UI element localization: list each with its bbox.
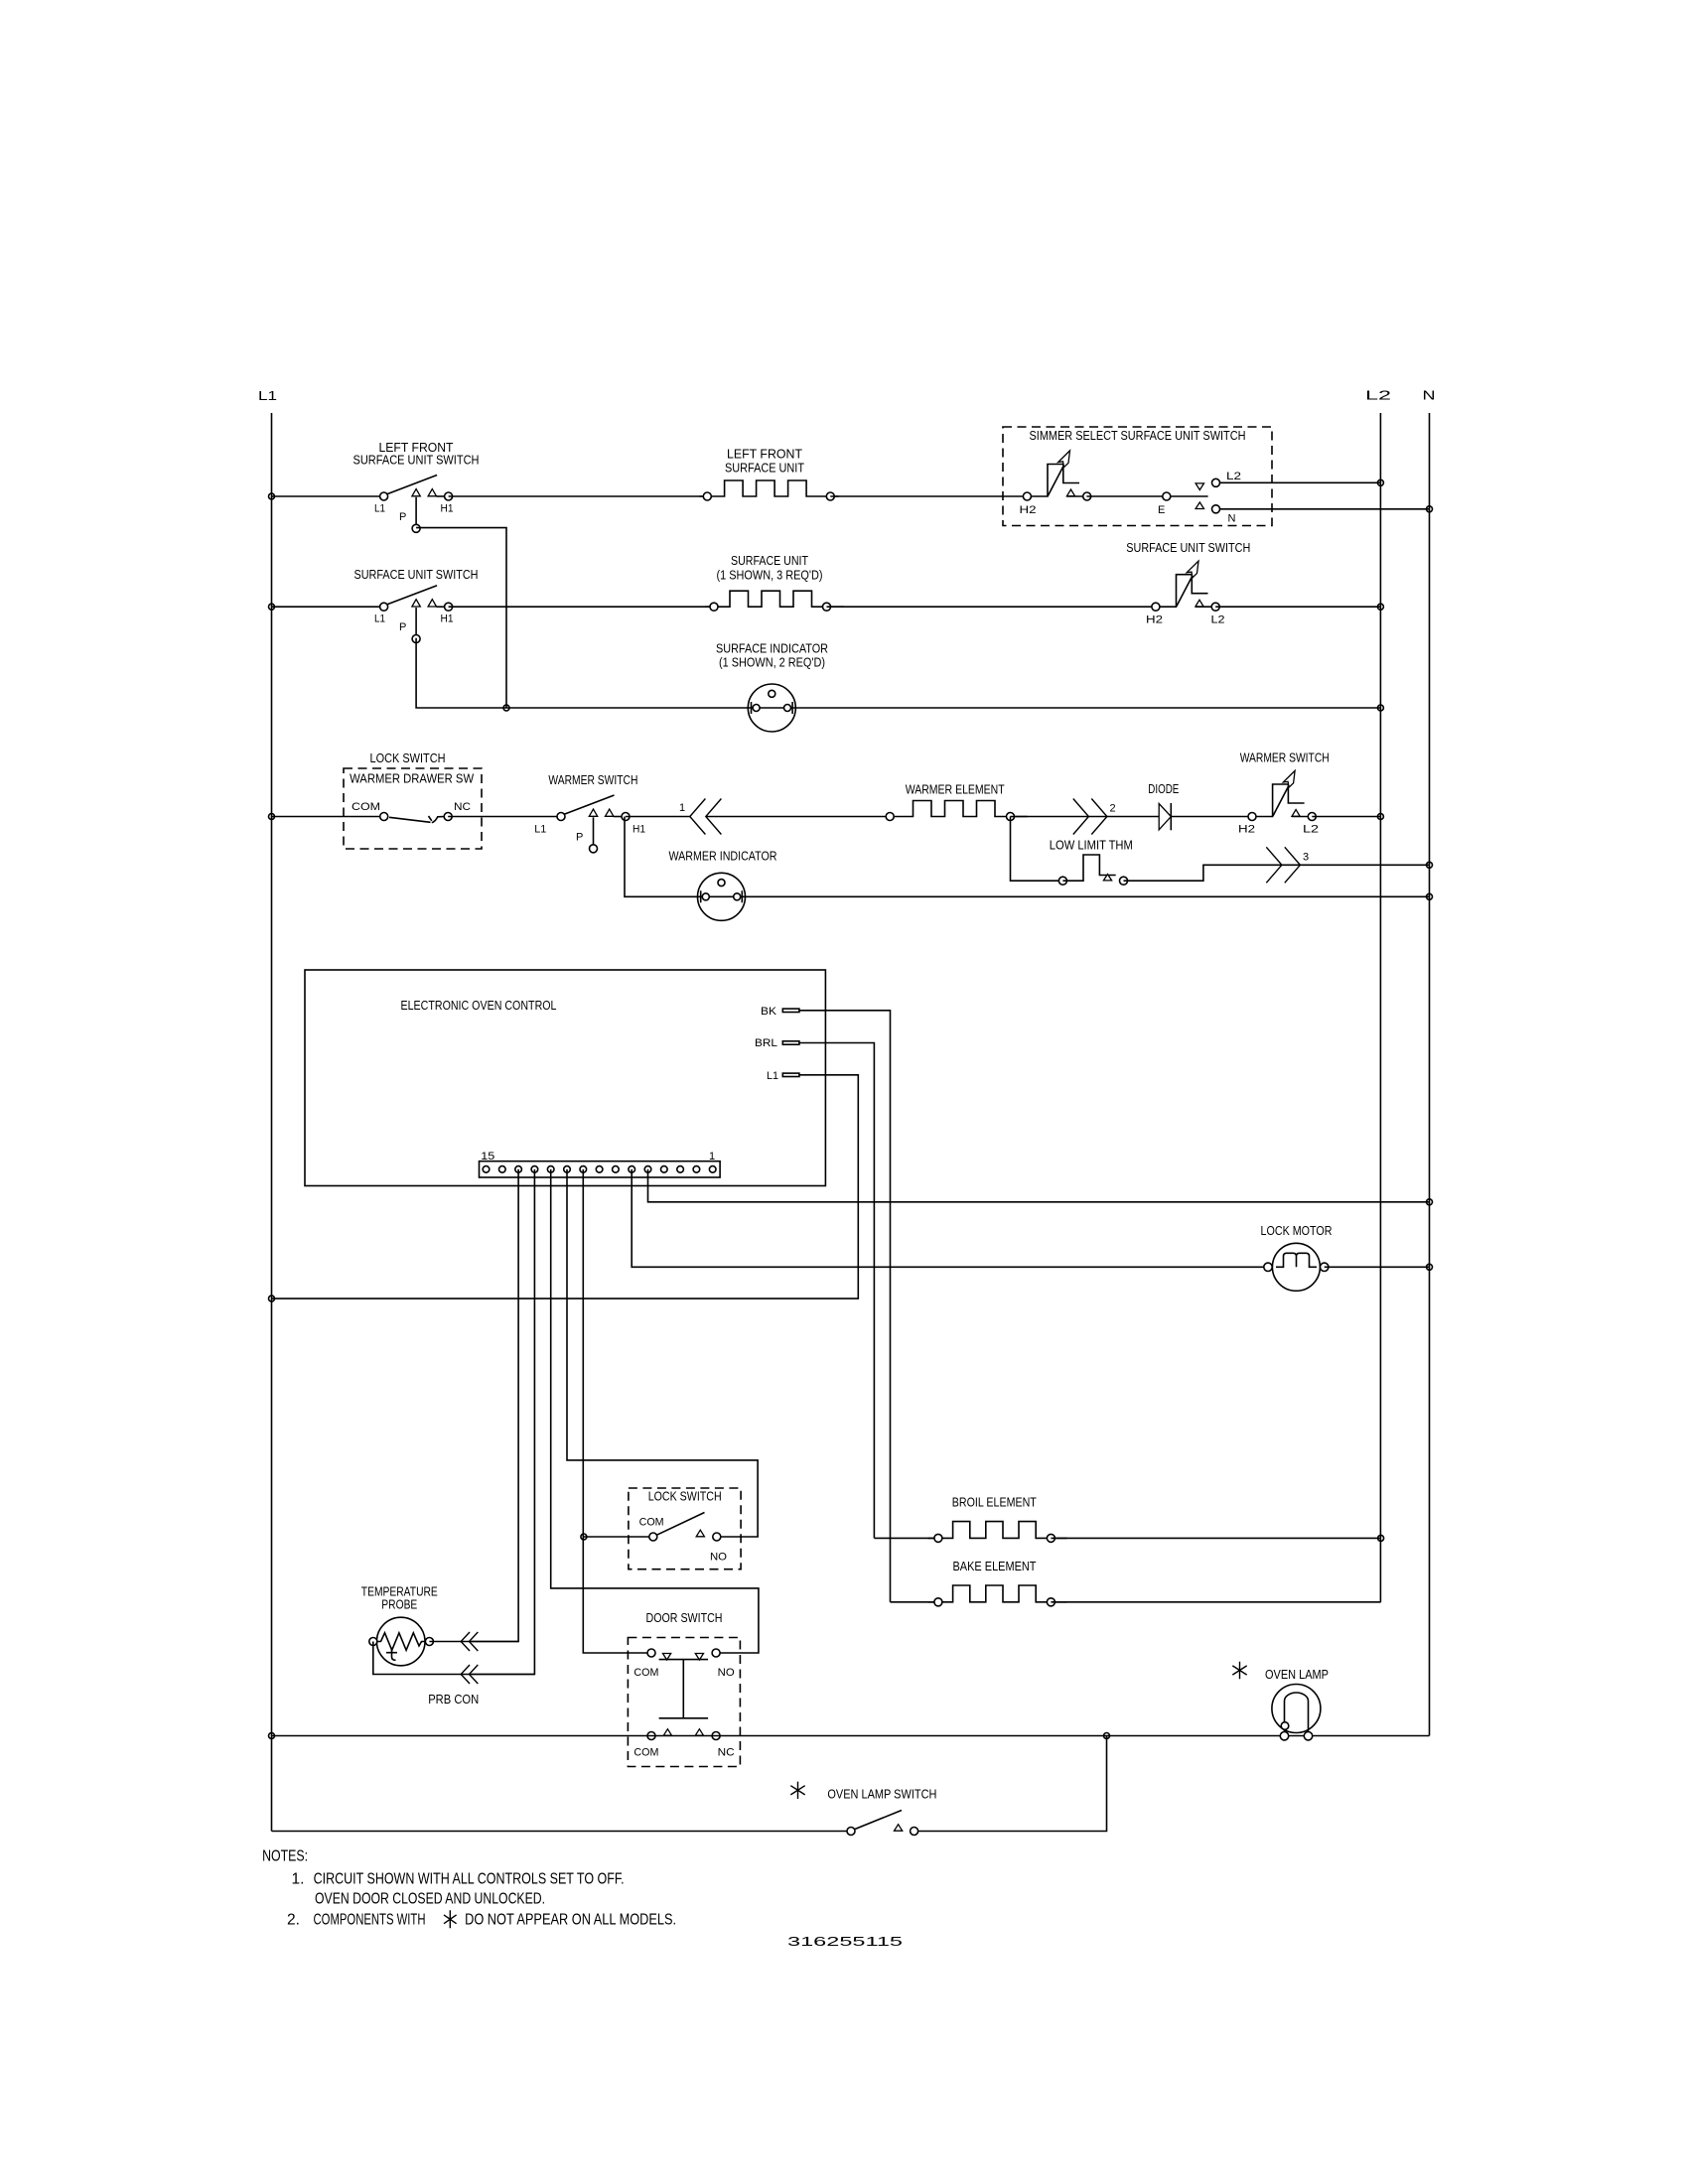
connector 2 chevrons — [1073, 799, 1107, 835]
switch: surface unit switch row2 — [380, 586, 453, 643]
junction L2 / broil — [1378, 1535, 1384, 1541]
wire to E terminal — [1086, 495, 1207, 497]
svg-text:BROIL ELEMENT: BROIL ELEMENT — [952, 1496, 1037, 1510]
svg-text:15: 15 — [481, 1151, 494, 1162]
svg-text:LOW LIMIT THM: LOW LIMIT THM — [1050, 839, 1133, 853]
wire pin6 to lock motor — [632, 1169, 1268, 1267]
wire P to junction, down to indicator line — [416, 528, 506, 708]
svg-text:WARMER SWITCH: WARMER SWITCH — [548, 773, 637, 787]
svg-text:COM: COM — [633, 1746, 658, 1758]
svg-text:H1: H1 — [441, 503, 454, 515]
svg-text:P: P — [399, 511, 406, 523]
svg-text:PROBE: PROBE — [381, 1598, 417, 1612]
box: electronic oven control — [305, 970, 825, 1186]
switch: warmer switch (L1/P/H1) — [557, 795, 630, 853]
svg-text:L1: L1 — [534, 824, 546, 836]
svg-text:SIMMER SELECT SURFACE UNIT SWI: SIMMER SELECT SURFACE UNIT SWITCH — [1030, 429, 1246, 443]
svg-text:DOOR SWITCH: DOOR SWITCH — [646, 1611, 723, 1625]
svg-text:H1: H1 — [633, 824, 645, 836]
thermistor: temperature probe — [376, 1617, 425, 1666]
svg-text:L1: L1 — [258, 389, 277, 403]
box: lock switch (dashed) — [629, 1488, 741, 1570]
svg-text:SURFACE UNIT: SURFACE UNIT — [725, 462, 804, 476]
wire: L2 rail — [1379, 413, 1381, 1602]
junction N / lock motor — [1427, 1264, 1433, 1270]
switch: oven lamp switch — [847, 1828, 855, 1836]
svg-text:NC: NC — [454, 801, 471, 813]
asterisk lamp switch — [790, 1782, 804, 1799]
svg-text:BK: BK — [761, 1006, 777, 1018]
connector 1 chevrons — [690, 799, 722, 835]
svg-text:SURFACE UNIT SWITCH: SURFACE UNIT SWITCH — [354, 568, 479, 582]
svg-text:SURFACE UNIT SWITCH: SURFACE UNIT SWITCH — [353, 454, 480, 468]
svg-text:WARMER INDICATOR: WARMER INDICATOR — [669, 850, 777, 864]
svg-text:LOCK SWITCH: LOCK SWITCH — [370, 751, 446, 765]
junction pin9 wire / lock switch COM — [581, 1534, 587, 1540]
svg-text:NOTES:: NOTES: — [262, 1848, 308, 1865]
svg-text:P: P — [399, 621, 406, 633]
switch: warmer drawer sw COM-NC — [380, 813, 388, 821]
svg-text:SURFACE INDICATOR: SURFACE INDICATOR — [716, 642, 828, 656]
svg-text:WARMER ELEMENT: WARMER ELEMENT — [906, 783, 1005, 797]
junction N/warmer indicator — [1427, 893, 1433, 899]
junction indicator/L2 — [1377, 705, 1383, 711]
svg-text:(1 SHOWN, 2 REQ'D): (1 SHOWN, 2 REQ'D) — [719, 656, 825, 670]
asterisk oven lamp — [1232, 1662, 1246, 1679]
wire probe to chevrons pin13 — [429, 1641, 518, 1643]
svg-text:H2: H2 — [1146, 614, 1163, 626]
wire H1 to connector 1 — [626, 816, 690, 818]
switch: lock switch COM-NO — [649, 1533, 657, 1541]
wire pin5 to N rail — [648, 1169, 1430, 1202]
switch: left front surface unit switch (L1/P/H1) — [380, 476, 453, 533]
wire low limit to connector 3 and N — [1124, 865, 1430, 881]
svg-text:NO: NO — [718, 1667, 735, 1679]
svg-text:WARMER SWITCH: WARMER SWITCH — [1240, 751, 1330, 765]
junction bottom line / lamp switch riser — [1104, 1733, 1110, 1739]
junction L1/row2 — [269, 604, 275, 610]
wire switch H1 to element — [449, 495, 708, 497]
svg-text:2: 2 — [1110, 803, 1116, 815]
wire: N rail — [1429, 413, 1431, 1736]
wire L1 to warmer drawer switch — [272, 816, 384, 818]
svg-text:COMPONENTS WITH: COMPONENTS WITH — [314, 1912, 426, 1929]
contact L2 of simmer switch — [1196, 483, 1203, 490]
wire row1 from L1 to switch — [272, 495, 384, 497]
junction row1P/row2 indicator line — [503, 705, 509, 711]
wire pin12 to probe return — [472, 1169, 534, 1675]
svg-text:SURFACE UNIT: SURFACE UNIT — [731, 554, 808, 568]
svg-text:H1: H1 — [441, 614, 454, 625]
svg-text:1: 1 — [679, 802, 685, 814]
motor: lock motor — [1272, 1243, 1320, 1291]
switch: surface unit switch (right wiper) — [1152, 561, 1219, 611]
wire row2 from L1 — [272, 606, 384, 608]
wire pin9 to lock switch COM and door switch COM — [583, 1169, 651, 1653]
box: warmer drawer switch (dashed) — [344, 768, 482, 849]
svg-text:COM: COM — [639, 1517, 664, 1529]
wire pin13 to temperature probe — [472, 1169, 518, 1642]
svg-text:PRB CON: PRB CON — [428, 1693, 479, 1706]
box: door switch (dashed) — [628, 1638, 740, 1767]
lamp: oven lamp — [1272, 1685, 1321, 1733]
svg-text:L2: L2 — [1365, 389, 1391, 403]
connector 3 chevrons — [1266, 847, 1300, 883]
wire element to simmer switch — [830, 495, 1027, 497]
lamp: surface indicator — [748, 684, 795, 732]
svg-text:COM: COM — [633, 1667, 658, 1679]
wire row2 P down to indicator line — [416, 638, 752, 708]
svg-text:NO: NO — [710, 1552, 727, 1564]
svg-text:P: P — [576, 832, 583, 844]
connector strip 15..1 — [480, 1161, 721, 1177]
svg-text:BAKE ELEMENT: BAKE ELEMENT — [953, 1560, 1037, 1573]
switch: door switch top pole COM-NO — [647, 1649, 655, 1657]
svg-text:(1 SHOWN, 3 REQ'D): (1 SHOWN, 3 REQ'D) — [717, 569, 823, 583]
switch: simmer select wiper — [1023, 451, 1090, 500]
wire H1 to element row2 — [449, 606, 714, 608]
wire to L2 rail — [1215, 606, 1380, 608]
wire diode to warmer switch right — [1171, 816, 1252, 818]
svg-text:OVEN DOOR CLOSED AND UNLOCKED.: OVEN DOOR CLOSED AND UNLOCKED. — [315, 1890, 545, 1907]
junction L2/row2 — [1377, 604, 1383, 610]
svg-text:2.: 2. — [287, 1912, 300, 1929]
strip holes — [483, 1166, 490, 1173]
svg-text:OVEN LAMP: OVEN LAMP — [1265, 1668, 1329, 1682]
svg-text:DIODE: DIODE — [1148, 782, 1179, 796]
wire H1 down to warmer indicator and N — [625, 817, 1430, 897]
svg-text:H2: H2 — [1020, 504, 1037, 516]
wire to warmer switch — [448, 816, 561, 818]
junction L2 rail row1 — [1377, 479, 1383, 485]
svg-text:L2: L2 — [1303, 824, 1319, 836]
svg-text:LOCK SWITCH: LOCK SWITCH — [648, 1490, 722, 1504]
door switch actuator bar — [659, 1660, 709, 1718]
svg-text:CIRCUIT SHOWN WITH ALL CONTROL: CIRCUIT SHOWN WITH ALL CONTROLS SET TO O… — [314, 1871, 625, 1888]
wire to L2 rail row3 — [1312, 816, 1380, 818]
switch: warmer switch right (wiper) — [1248, 770, 1316, 820]
svg-text:L2: L2 — [1211, 614, 1225, 626]
wire element right terminal down to low limit thm — [1011, 817, 1063, 882]
switch: door switch bottom pole COM-NC — [647, 1732, 655, 1740]
svg-text:H2: H2 — [1238, 824, 1255, 836]
wire connector1 to warmer element — [706, 816, 890, 818]
svg-text:3: 3 — [1303, 852, 1309, 864]
svg-text:DO NOT APPEAR ON ALL MODELS.: DO NOT APPEAR ON ALL MODELS. — [465, 1912, 676, 1929]
svg-text:ELECTRONIC OVEN CONTROL: ELECTRONIC OVEN CONTROL — [401, 999, 557, 1013]
svg-text:LOCK MOTOR: LOCK MOTOR — [1261, 1224, 1333, 1238]
svg-text:L1: L1 — [374, 614, 385, 625]
svg-text:N: N — [1423, 389, 1436, 403]
svg-text:L1: L1 — [767, 1070, 778, 1082]
contact N of simmer switch — [1196, 502, 1203, 509]
junction N rail simmer — [1427, 506, 1433, 512]
svg-text:TEMPERATURE: TEMPERATURE — [361, 1585, 438, 1599]
svg-text:1.: 1. — [292, 1871, 305, 1888]
wire element to connector 2 and diode — [1011, 816, 1160, 818]
svg-text:OVEN LAMP SWITCH: OVEN LAMP SWITCH — [827, 1788, 936, 1802]
svg-text:1: 1 — [709, 1151, 715, 1162]
wire element to right switch — [827, 606, 1156, 608]
junction L1 / bottom line — [269, 1733, 275, 1739]
junction L2/row3 — [1377, 814, 1383, 820]
junction L1 rail / EOC L1 wire — [269, 1296, 275, 1301]
wire probe bottom loop to pin12 — [373, 1642, 535, 1675]
wire through indicator to L2 — [752, 707, 1380, 709]
wire bottom line L1 to N through door switch and lamp — [272, 1735, 1430, 1737]
junction N / pin5 wire — [1427, 1199, 1433, 1205]
wire lock motor to N — [1325, 1266, 1430, 1268]
svg-text:L2: L2 — [1226, 471, 1241, 482]
svg-text:COM: COM — [352, 801, 380, 813]
junction L1/row3 — [269, 814, 275, 820]
wire pin11 to door switch NO — [551, 1169, 759, 1653]
svg-text:BRL: BRL — [755, 1037, 777, 1049]
wire lamp switch line — [272, 1831, 852, 1833]
junction L1/row1 — [269, 493, 275, 499]
svg-text:N: N — [1228, 513, 1236, 525]
wire pin10 to lock switch NO — [567, 1169, 758, 1537]
svg-text:NC: NC — [718, 1746, 735, 1758]
wire: L1 rail — [271, 413, 273, 1832]
junction N/connector3 line — [1427, 862, 1433, 868]
svg-text:E: E — [1158, 504, 1165, 516]
svg-text:LEFT FRONT: LEFT FRONT — [727, 448, 802, 462]
svg-text:L1: L1 — [374, 503, 385, 515]
svg-text:SURFACE UNIT SWITCH: SURFACE UNIT SWITCH — [1126, 541, 1250, 555]
svg-text:316255115: 316255115 — [787, 1935, 903, 1949]
lamp: warmer indicator — [698, 873, 746, 920]
svg-text:WARMER DRAWER SW: WARMER DRAWER SW — [350, 772, 474, 786]
box: simmer select surface unit switch (dashed) — [1003, 427, 1272, 526]
